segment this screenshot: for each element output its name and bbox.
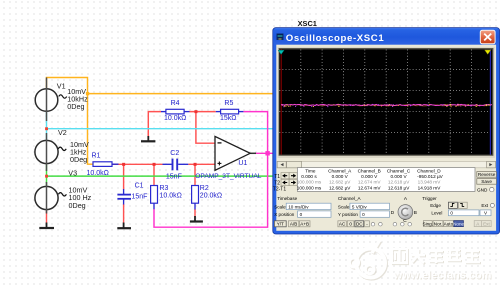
- wire R4 feedback net (red): [148, 112, 216, 144]
- junction op-amp output node: [265, 151, 269, 155]
- voltage source V1: [35, 78, 88, 122]
- wire V1 to scope channel A (orange): [86, 92, 273, 95]
- title bar: [273, 28, 499, 45]
- channel selector knob: [391, 196, 417, 223]
- readout table: [297, 168, 475, 192]
- voltage source V2: [35, 128, 89, 171]
- capacitor C1: [117, 182, 147, 204]
- junction C1 node: [122, 163, 125, 166]
- trigger section: [422, 196, 494, 227]
- window frame: [273, 28, 500, 234]
- channel A section: [338, 196, 412, 227]
- readout cursor rows T1 T2: [273, 173, 297, 193]
- resistor R3: [151, 185, 182, 209]
- T1 cursor (red): [278, 49, 284, 154]
- screen grid: [279, 50, 492, 155]
- T2 cursor (blue): [485, 49, 491, 154]
- scrollbar: [277, 161, 495, 167]
- voltage source V3: [35, 168, 92, 213]
- reverse save gnd buttons: [477, 172, 497, 193]
- scope traces: [281, 104, 492, 107]
- resistor R5: [216, 100, 244, 122]
- ground left of R4: [141, 136, 155, 141]
- resistor R2: [192, 185, 223, 210]
- op-amp U1: [195, 136, 261, 180]
- close button: [480, 30, 495, 44]
- wire summing node (red): [47, 131, 216, 223]
- ground below V3: [39, 223, 54, 229]
- ground below C1: [117, 223, 131, 229]
- ground below R2: [190, 216, 203, 222]
- wire V3 to scope channel C (green): [45, 165, 273, 187]
- resistor R1: [87, 153, 119, 177]
- capacitor C2: [163, 150, 189, 181]
- wire V1 top to R1 (orange): [47, 78, 94, 165]
- timebase section: [274, 196, 331, 227]
- wire V2 to scope channel B (cyan): [45, 112, 273, 140]
- resistor R4: [161, 100, 190, 122]
- scope screen bezel: [278, 47, 495, 158]
- wire op-amp output feedback (magenta): [154, 112, 273, 228]
- junction R2 node: [194, 163, 197, 166]
- svg-text:www.elecfans.com: www.elecfans.com: [393, 270, 492, 282]
- junction R3 node: [153, 163, 156, 166]
- junction R4-R5 node: [194, 110, 197, 113]
